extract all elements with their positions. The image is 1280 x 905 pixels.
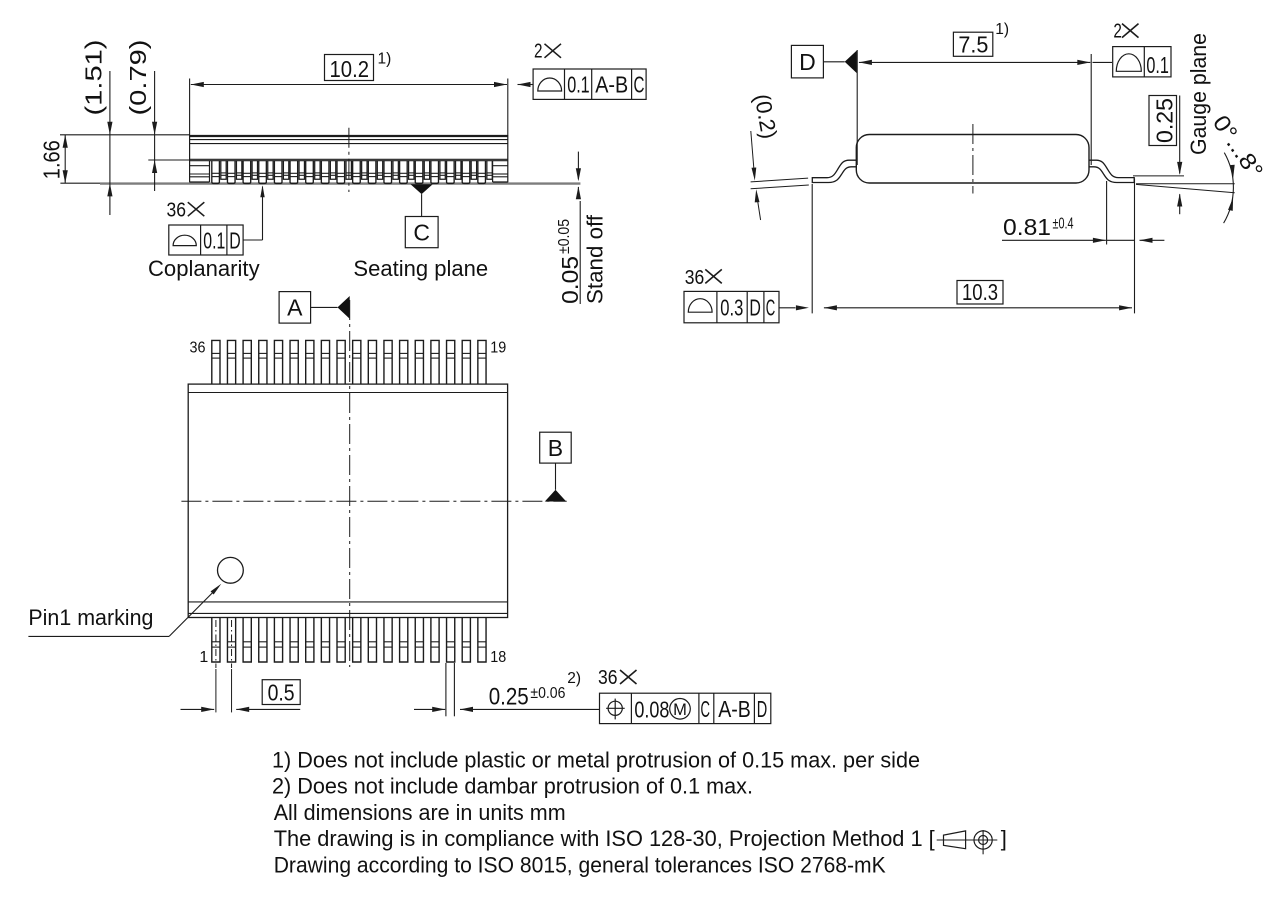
svg-text:]: ] — [1001, 826, 1007, 851]
dimension (0.2) lead thickness — [750, 92, 809, 220]
svg-text:0.25: 0.25 — [1151, 98, 1177, 143]
svg-text:D: D — [749, 294, 761, 320]
tolerance frame 36x 0.3 D C — [684, 267, 796, 323]
svg-text:10.2: 10.2 — [330, 56, 370, 82]
tolerance frame 2x 0.1 A-B C — [533, 41, 646, 100]
svg-text:(0.79): (0.79) — [125, 40, 151, 116]
svg-text:M: M — [673, 701, 687, 719]
first angle projection symbol — [937, 830, 998, 854]
pin 1 marking circle — [218, 557, 244, 583]
svg-text:±0.4: ±0.4 — [1053, 216, 1074, 233]
position tolerance frame 36x 0.08 M C A-B D — [598, 667, 771, 723]
svg-text:Stand off: Stand off — [583, 214, 608, 304]
svg-text:2): 2) — [567, 670, 581, 687]
side view: package body — [60, 135, 508, 183]
top view: package body — [188, 384, 507, 617]
svg-text:(1.51): (1.51) — [81, 40, 107, 116]
dimension 0.05 +/-0.05 stand off — [556, 152, 583, 304]
side view: right end block — [493, 161, 508, 182]
svg-text:C: C — [634, 72, 645, 98]
top view: horizontal centerline — [181, 500, 566, 502]
svg-text:0.1: 0.1 — [1146, 52, 1169, 78]
svg-text:D: D — [799, 49, 816, 75]
svg-text:18: 18 — [490, 649, 506, 666]
dimension 0.5 pin pitch — [181, 679, 301, 712]
top view: vertical centerline — [349, 300, 351, 667]
svg-text:1) Does not include plastic or: 1) Does not include plastic or metal pro… — [272, 747, 920, 772]
svg-text:36: 36 — [685, 267, 705, 289]
svg-text:Drawing according to ISO 8015,: Drawing according to ISO 8015, general t… — [274, 853, 886, 878]
dimension 7.5 with box and note 1) — [857, 21, 1112, 165]
svg-text:36: 36 — [598, 667, 618, 689]
label Pin1 marking with leader — [28, 584, 221, 637]
side view: 36 leads (front and back rows) — [212, 161, 492, 184]
pin 1 and 2 centerlines — [216, 620, 232, 712]
dimension 1.66 — [38, 135, 68, 183]
svg-text:The drawing is in compliance w: The drawing is in compliance with ISO 12… — [274, 826, 935, 851]
side view: left end block — [190, 161, 210, 182]
dimension (1.51) — [81, 40, 113, 216]
svg-text:36: 36 — [190, 339, 206, 356]
svg-text:Seating plane: Seating plane — [353, 256, 488, 281]
pin number labels — [190, 339, 507, 666]
dimension 0.25 +/-0.06 pin width — [414, 663, 600, 716]
datum C seating plane — [405, 184, 438, 247]
svg-text:1.66: 1.66 — [38, 140, 64, 179]
svg-text:C: C — [701, 696, 711, 722]
svg-text:2: 2 — [1113, 21, 1122, 43]
svg-text:1: 1 — [199, 649, 208, 666]
svg-text:7.5: 7.5 — [958, 31, 988, 57]
svg-text:D: D — [229, 227, 241, 253]
dimension 10.2 with box and note 1) — [190, 51, 533, 136]
svg-text:36: 36 — [167, 199, 187, 221]
svg-text:±0.06: ±0.06 — [530, 685, 565, 702]
svg-text:0.1: 0.1 — [203, 227, 225, 253]
svg-text:0.3: 0.3 — [720, 294, 743, 320]
svg-text:D: D — [757, 696, 768, 722]
svg-text:2: 2 — [534, 41, 543, 63]
svg-text:Pin1 marking: Pin1 marking — [28, 605, 153, 630]
coplanarity tolerance frame 36x 0.1 D — [167, 185, 265, 255]
svg-text:0.08: 0.08 — [634, 696, 669, 722]
svg-text:1): 1) — [378, 51, 392, 68]
svg-text:0.25: 0.25 — [489, 684, 529, 711]
svg-text:A-B: A-B — [718, 696, 751, 722]
side view: vertical centerline — [348, 128, 350, 192]
datum B — [540, 432, 572, 501]
datum A — [279, 292, 350, 324]
svg-text:0.05: 0.05 — [557, 256, 583, 304]
svg-text:10.3: 10.3 — [962, 279, 998, 305]
end view: left lead — [812, 160, 857, 182]
svg-text:0.81: 0.81 — [1003, 214, 1051, 240]
svg-text:0.1: 0.1 — [567, 72, 590, 98]
svg-text:0.5: 0.5 — [268, 679, 295, 705]
side view: seating plane line — [60, 182, 580, 184]
svg-text:B: B — [548, 435, 563, 461]
end view: right lead — [1089, 160, 1135, 182]
top view: pins 36..19 (top row) — [212, 340, 486, 384]
svg-text:1): 1) — [995, 21, 1009, 38]
top view: pins 1..18 (bottom row) — [212, 618, 486, 663]
svg-text:All dimensions are in units mm: All dimensions are in units mm — [274, 800, 566, 825]
dimension 10.3 with box — [796, 184, 1132, 313]
svg-text:Coplanarity: Coplanarity — [148, 256, 260, 281]
svg-text:Gauge plane: Gauge plane — [1186, 33, 1211, 155]
svg-text:C: C — [413, 219, 430, 245]
dimension (0.79) — [125, 40, 157, 192]
svg-text:2) Does not include dambar pro: 2) Does not include dambar protrusion of… — [272, 774, 753, 799]
notes text block — [272, 747, 1007, 851]
dimension 0.25 gauge plane — [1133, 96, 1184, 215]
end view: vertical centerline — [972, 124, 974, 194]
svg-text:C: C — [766, 294, 776, 320]
svg-text:A-B: A-B — [595, 72, 628, 98]
datum D — [791, 45, 857, 78]
svg-text:19: 19 — [490, 339, 506, 356]
dimension 0.81 +/-0.4 foot length — [1002, 179, 1164, 314]
dimension 0 to 8 degrees lead angle — [1136, 110, 1269, 223]
tolerance frame 2x 0.1 (end view) — [1113, 21, 1171, 79]
svg-text:±0.05: ±0.05 — [556, 219, 573, 254]
svg-text:A: A — [287, 294, 303, 320]
end view: package body — [856, 135, 1089, 184]
